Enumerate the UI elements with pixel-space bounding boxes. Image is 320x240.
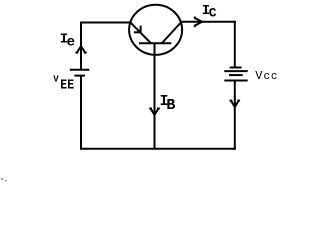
svg-text:e: e [67, 35, 75, 51]
svg-text:EE: EE [60, 78, 74, 94]
svg-text:C: C [209, 6, 217, 21]
battery VCC short plate [229, 74, 243, 76]
current arrow into bottom of VCC branch (downward) [230, 100, 241, 107]
current arrow IB (downward) [149, 108, 160, 115]
transistor emitter arrowhead [140, 26, 142, 33]
wire: right vertical lower (VCC battery to bottom wire) [234, 81, 236, 150]
svg-text:cc: cc [264, 71, 279, 83]
battery VCC [224, 68, 247, 81]
svg-text:V: V [53, 75, 59, 85]
wire: bottom horizontal [80, 148, 236, 150]
label IB [159, 93, 175, 114]
transistor base bar [139, 42, 171, 44]
wire: top-left horizontal (VEE to emitter) [80, 22, 131, 24]
label IC [202, 3, 217, 21]
speck artifact bottom-left [1, 178, 7, 181]
wire: left vertical lower (VEE battery to bottom wire) [80, 76, 82, 150]
transistor emitter diagonal [130, 22, 150, 43]
wire: right vertical upper (top wire to VCC battery) [234, 21, 236, 68]
battery VCC long plate 2 [224, 80, 247, 82]
wire: top-right horizontal (collector to VCC) [181, 21, 236, 23]
current arrow IC (rightward) [194, 17, 202, 28]
transistor collector diagonal [162, 22, 181, 43]
battery VCC long plate 1 [224, 70, 247, 72]
wire: base lead vertical [154, 44, 156, 149]
battery VCC top tick plate [230, 67, 242, 69]
label Ie [60, 32, 75, 51]
transistor body circle [129, 5, 182, 55]
svg-text:V: V [255, 69, 263, 83]
svg-text:B: B [166, 97, 175, 114]
battery VEE long plate (+) [70, 69, 90, 71]
battery VEE short plate (-) [74, 75, 85, 77]
label Vcc [255, 69, 278, 83]
current arrow Ie (upward) [75, 46, 86, 53]
label VEE [53, 75, 74, 94]
transistor Q1 (PNP, common-base) [129, 5, 182, 55]
wire: left vertical upper (top wire down to VEE battery) [80, 22, 82, 70]
